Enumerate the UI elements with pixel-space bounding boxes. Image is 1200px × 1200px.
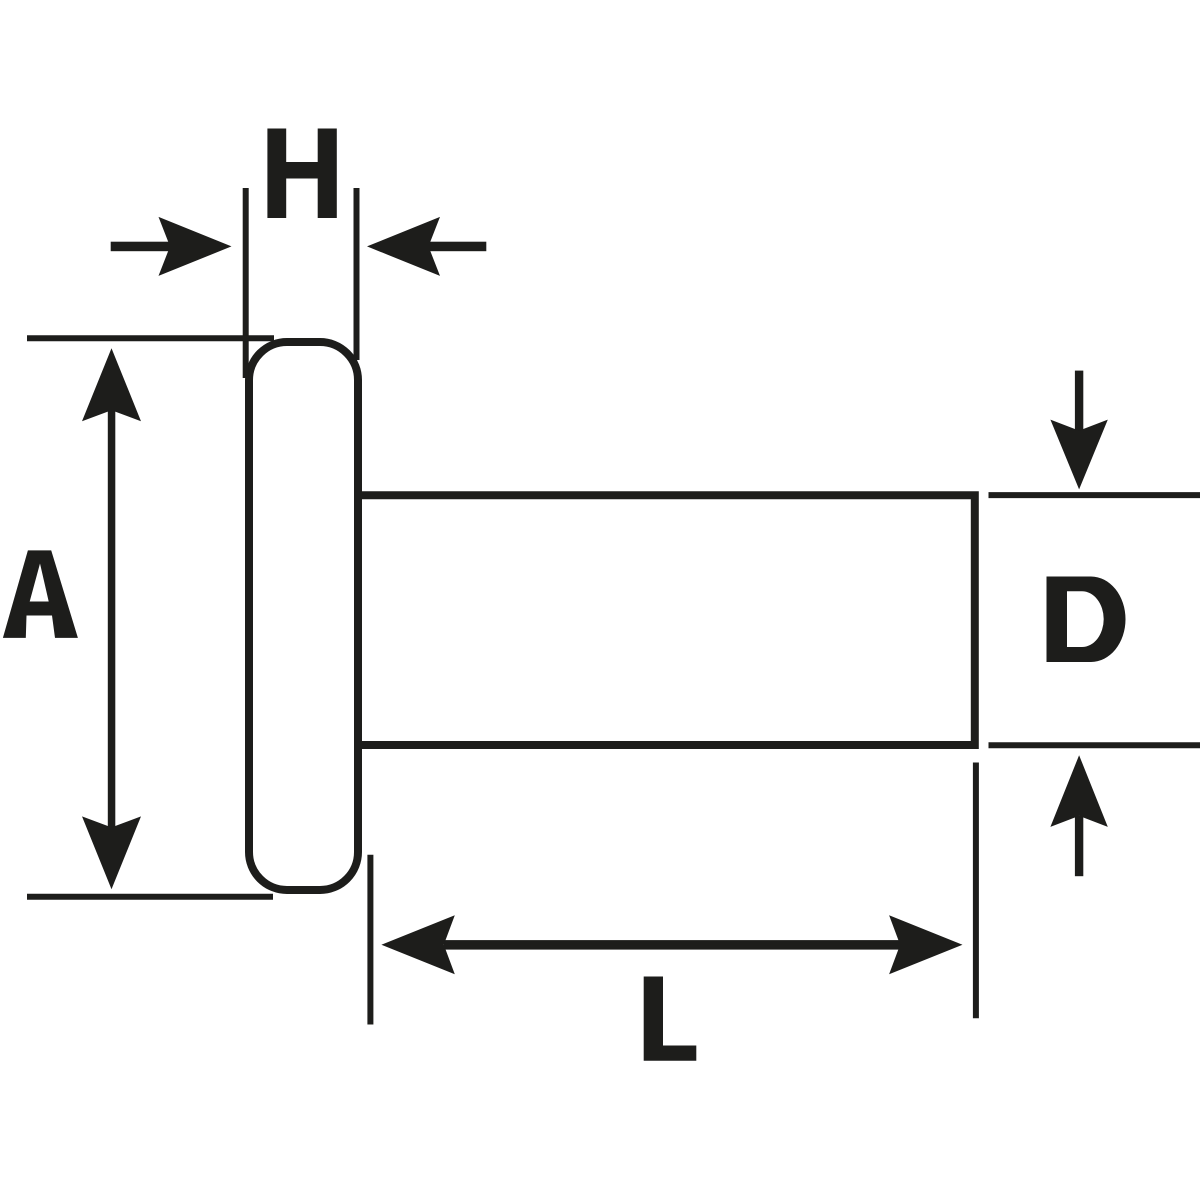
A dimension line shaft: [108, 410, 116, 828]
L dimension line shaft: [444, 940, 902, 950]
L extension line left: [367, 855, 373, 1025]
A extension line bottom: [27, 894, 273, 900]
H right arrow shaft: [429, 242, 487, 252]
D extension line bottom: [989, 742, 1200, 748]
A bottom arrowhead (points down): [82, 816, 141, 889]
D top arrow shaft: [1075, 371, 1083, 432]
label H: [267, 129, 336, 219]
D bottom arrow shaft: [1075, 816, 1083, 876]
A extension line top: [27, 335, 274, 341]
L extension line right: [973, 763, 979, 1019]
A top arrowhead (points up): [82, 348, 141, 421]
D top arrowhead (points down): [1050, 420, 1107, 490]
H right arrowhead (points left): [367, 217, 440, 276]
H extension line left: [243, 188, 249, 378]
D bottom arrowhead (points up): [1050, 755, 1107, 827]
label L: [644, 977, 697, 1061]
D extension line top: [989, 492, 1200, 498]
L right arrowhead (points right): [889, 915, 962, 974]
L left arrowhead (points left): [381, 915, 454, 974]
H left arrowhead (points right): [159, 217, 232, 276]
label D: [1047, 577, 1126, 663]
H left arrow shaft: [111, 242, 173, 252]
rivet shank outline: [358, 495, 975, 745]
H extension line right: [354, 188, 360, 360]
label A: [3, 550, 78, 638]
rivet head outline (rounded rectangle): [249, 342, 358, 890]
